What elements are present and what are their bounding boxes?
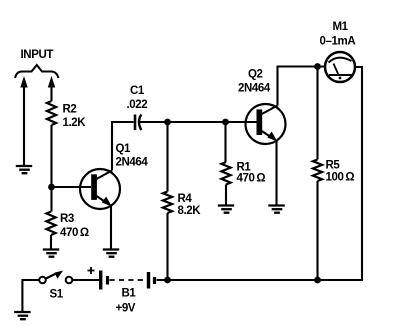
- input terminal arrow left: [20, 76, 27, 166]
- label C1 .022: [127, 85, 148, 111]
- svg-text:470 Ω: 470 Ω: [60, 227, 89, 239]
- svg-text:+9V: +9V: [116, 303, 136, 315]
- svg-text:2N464: 2N464: [238, 83, 271, 95]
- svg-text:470 Ω: 470 Ω: [237, 173, 266, 185]
- svg-text:C1: C1: [130, 85, 145, 97]
- svg-text:S1: S1: [50, 289, 64, 301]
- node R5 tap on top rail: [314, 63, 321, 70]
- wire switch to battery: [73, 279, 100, 281]
- wire R4 top: [166, 122, 168, 192]
- label Q1 2N464: [116, 143, 149, 169]
- resistor R1: [221, 162, 230, 185]
- resistor R2: [47, 101, 56, 125]
- meter M1: [325, 52, 355, 82]
- wire meter right down to negative rail: [320, 67, 362, 280]
- node R5 bottom junction: [314, 277, 321, 284]
- node battery junction: [164, 277, 171, 284]
- label R4 8.2K: [178, 193, 202, 217]
- wire R5 bottom to negative rail: [316, 181, 318, 280]
- svg-text:R4: R4: [178, 193, 193, 205]
- resistor R5: [313, 160, 322, 182]
- wire junction to Q1 base: [52, 186, 92, 188]
- svg-text:R5: R5: [326, 160, 341, 172]
- wire R1 to ground: [225, 185, 227, 206]
- wire R3 to ground: [50, 235, 52, 250]
- svg-text:8.2K: 8.2K: [178, 205, 202, 217]
- svg-text:B1: B1: [122, 288, 137, 300]
- label R3 470ohm: [60, 213, 89, 239]
- svg-text:R3: R3: [60, 213, 74, 225]
- transistor Q1: [80, 169, 120, 209]
- svg-text:Q1: Q1: [116, 143, 132, 155]
- ground (input left): [16, 166, 32, 173]
- ground (R3): [43, 250, 59, 257]
- resistor R4: [163, 192, 172, 214]
- wire R4 bottom to negative rail: [166, 213, 168, 280]
- node R1 tap: [222, 119, 229, 126]
- wire Q2 collector up to top rail: [278, 67, 327, 106]
- svg-text:.022: .022: [127, 99, 148, 111]
- wire negative rail: [157, 279, 318, 281]
- resistor R3: [46, 212, 55, 236]
- ground (S1 / battery negative): [14, 312, 30, 319]
- label Q2 2N464: [238, 69, 271, 95]
- transistor Q2: [246, 104, 286, 144]
- input terminal arrow right: [48, 76, 55, 101]
- label R1 470ohm: [237, 162, 266, 185]
- label M1 0-1mA: [320, 21, 356, 48]
- svg-text:Q2: Q2: [248, 69, 263, 81]
- ground (Q1 emitter): [103, 250, 119, 257]
- label B1 +9V: [116, 288, 137, 315]
- node R4 tap: [164, 119, 171, 126]
- wire ground to switch: [22, 280, 39, 312]
- wire C1 to Q2 base: [140, 121, 257, 123]
- svg-text:1.2K: 1.2K: [63, 117, 87, 129]
- label R2 1.2K: [63, 104, 87, 130]
- svg-text:2N464: 2N464: [116, 157, 149, 169]
- svg-text:100 Ω: 100 Ω: [326, 172, 355, 184]
- wire Q2 emitter down: [275, 140, 277, 206]
- wire R1 top: [224, 122, 226, 162]
- node Q1 base junction: [48, 184, 55, 191]
- wire Q1 emitter down: [110, 205, 112, 250]
- label R5 100ohm: [326, 160, 355, 184]
- svg-text:R2: R2: [63, 104, 77, 116]
- svg-text:INPUT: INPUT: [21, 49, 54, 61]
- battery plus sign: [88, 267, 95, 274]
- switch S1: [39, 271, 72, 284]
- ground (R1): [218, 206, 234, 213]
- ground (Q2 emitter): [268, 206, 284, 213]
- input brace: [15, 65, 59, 78]
- wire R2 to R3: [50, 125, 52, 212]
- svg-text:M1: M1: [333, 21, 349, 33]
- svg-text:0–1mA: 0–1mA: [320, 36, 356, 48]
- capacitor C1: [135, 115, 141, 131]
- wire Q1 collector up to C1: [112, 122, 134, 171]
- wire R5 top: [316, 67, 318, 160]
- battery B1: [101, 271, 155, 290]
